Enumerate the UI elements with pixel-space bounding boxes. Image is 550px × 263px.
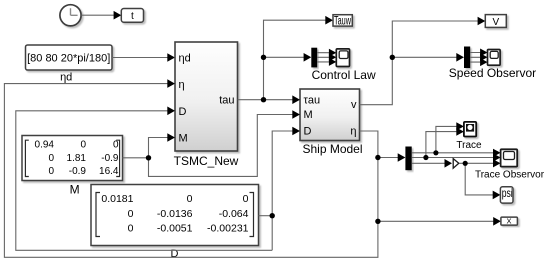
constant D matrix bbox=[91, 185, 259, 261]
wire demux out3 to gain bbox=[412, 162, 446, 164]
wire demux out2 to Trace Observor 2 bbox=[412, 157, 494, 159]
svg-text:psi: psi bbox=[502, 186, 513, 200]
wire D loop to TSMC D bbox=[16, 111, 272, 251]
svg-text:Trace: Trace bbox=[456, 140, 482, 151]
node M junction bbox=[146, 155, 151, 160]
wire M to Ship Model M bbox=[149, 115, 294, 177]
svg-text:Trace Observor: Trace Observor bbox=[475, 169, 545, 180]
svg-text:v: v bbox=[351, 99, 357, 111]
clock Clock bbox=[60, 5, 81, 26]
svg-text:-0.9: -0.9 bbox=[101, 153, 119, 164]
svg-text:ηd: ηd bbox=[60, 72, 72, 84]
svg-text:tau: tau bbox=[219, 94, 234, 106]
svg-text:-0.0136: -0.0136 bbox=[157, 208, 193, 220]
svg-text:t: t bbox=[131, 11, 134, 22]
scope Trace Observor bbox=[475, 149, 545, 180]
node tau-controllaw junction bbox=[261, 55, 266, 60]
subsystem TSMC_New bbox=[174, 42, 239, 168]
svg-text:X: X bbox=[506, 216, 511, 225]
goto Tauw bbox=[333, 15, 352, 28]
svg-text:-0.064: -0.064 bbox=[219, 208, 249, 220]
svg-text:0: 0 bbox=[48, 153, 54, 164]
node eta-X junction bbox=[375, 219, 380, 224]
wire M to TSMC M bbox=[149, 138, 169, 158]
wire gain to Trace Observor 3 bbox=[459, 162, 493, 164]
svg-text:0: 0 bbox=[187, 193, 193, 205]
svg-text:0: 0 bbox=[48, 166, 54, 177]
arrowhead into V bbox=[478, 17, 486, 26]
demux Control Law mux bbox=[311, 48, 317, 68]
wire to psi bbox=[465, 163, 493, 195]
goto V bbox=[485, 15, 506, 28]
wire D riser to Ship Model D bbox=[272, 131, 293, 250]
subsystem Ship Model bbox=[300, 89, 363, 156]
scope Trace (XY graph) bbox=[456, 122, 482, 151]
node out1 junction bbox=[433, 150, 438, 155]
svg-text:Speed Observor: Speed Observor bbox=[449, 66, 536, 80]
node v junction bbox=[390, 55, 395, 60]
svg-text:M: M bbox=[179, 132, 188, 144]
svg-text:0.0181: 0.0181 bbox=[101, 193, 133, 205]
svg-text:-0.0051: -0.0051 bbox=[157, 223, 193, 235]
wire demux out1 to Trace Observor 1 bbox=[412, 152, 494, 154]
svg-text:1.81: 1.81 bbox=[67, 153, 87, 164]
block t (To Workspace) bbox=[121, 9, 143, 23]
node tau junction bbox=[261, 97, 266, 102]
svg-text:0: 0 bbox=[243, 193, 249, 205]
scope Speed Observor bbox=[449, 50, 536, 80]
wire tau: TSMC out to Ship Model bbox=[238, 99, 293, 101]
gain small triangle bbox=[453, 159, 459, 169]
demux Trace demux bbox=[405, 147, 411, 171]
wire v: Ship Model out bbox=[360, 21, 479, 105]
wire out1 riser to Trace in1 bbox=[436, 126, 457, 152]
svg-text:η: η bbox=[179, 79, 185, 91]
wire M matrix output bbox=[123, 157, 149, 159]
svg-text:0: 0 bbox=[128, 208, 134, 220]
arrowhead into t bbox=[114, 11, 122, 20]
wires mux to scope Control Law bbox=[317, 53, 329, 62]
svg-text:Tauw: Tauw bbox=[334, 16, 351, 28]
goto X bbox=[501, 216, 518, 225]
constant [80 80 20*pi/180] bbox=[26, 45, 113, 70]
arrowhead into TSMC nd bbox=[167, 53, 175, 62]
demux Speed Observor mux bbox=[464, 47, 470, 69]
node gain-out junction bbox=[463, 161, 468, 166]
wire clock to t bbox=[81, 14, 114, 16]
svg-text:[80 80 20*pi/180]: [80 80 20*pi/180] bbox=[27, 53, 110, 65]
svg-text:V: V bbox=[492, 17, 499, 28]
svg-text:TSMC_New: TSMC_New bbox=[174, 154, 239, 168]
arrowhead into TSMC eta bbox=[167, 79, 175, 88]
matrix brackets D bbox=[96, 193, 100, 237]
arrowhead into Tauw bbox=[325, 16, 333, 25]
svg-text:D: D bbox=[179, 106, 187, 118]
svg-text:M: M bbox=[304, 109, 313, 121]
svg-text:-0.00231: -0.00231 bbox=[207, 223, 249, 235]
wire tau riser bbox=[264, 20, 327, 100]
svg-text:0.94: 0.94 bbox=[35, 140, 55, 151]
wire eta to trace demux bbox=[378, 157, 398, 159]
svg-text:η: η bbox=[350, 126, 356, 138]
svg-text:0: 0 bbox=[113, 140, 119, 151]
svg-text:0: 0 bbox=[80, 140, 86, 151]
node out2 junction bbox=[423, 155, 428, 160]
wires mux to scope Speed Observor bbox=[470, 53, 481, 63]
goto psi bbox=[500, 186, 513, 203]
svg-text:M: M bbox=[70, 183, 80, 197]
matrix brackets M bbox=[25, 140, 28, 176]
svg-text:ηd: ηd bbox=[179, 52, 191, 64]
svg-text:Ship Model: Ship Model bbox=[302, 142, 362, 156]
svg-text:0: 0 bbox=[128, 223, 134, 235]
svg-text:16.4: 16.4 bbox=[99, 166, 119, 177]
wire eta to X bbox=[378, 220, 494, 222]
scope Control Law bbox=[312, 49, 376, 82]
wire out2 riser to Trace in2 bbox=[426, 132, 457, 158]
wire v to Speed Observor bbox=[392, 56, 456, 58]
wire constant to TSMC nd bbox=[112, 57, 168, 59]
node D junction bbox=[270, 213, 275, 218]
svg-text:Control Law: Control Law bbox=[312, 68, 376, 82]
wire eta feedback (nd) bbox=[4, 84, 378, 258]
svg-text:D: D bbox=[304, 126, 312, 138]
constant M matrix bbox=[22, 136, 123, 197]
wire D matrix output bbox=[259, 215, 273, 217]
wire tau to Control Law bbox=[264, 56, 305, 58]
node eta-demux junction bbox=[375, 155, 380, 160]
svg-text:-0.9: -0.9 bbox=[69, 166, 87, 177]
svg-text:τau: τau bbox=[304, 95, 321, 107]
